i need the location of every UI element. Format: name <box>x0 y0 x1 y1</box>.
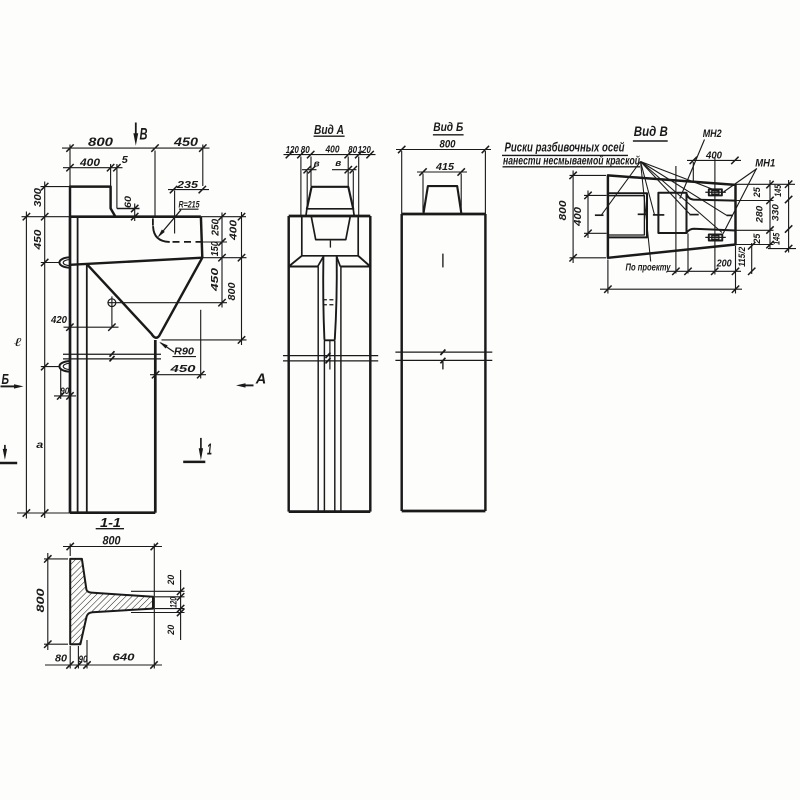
svg-text:145: 145 <box>773 184 784 197</box>
extension line x116.9 <box>116 164 118 209</box>
view B column outline <box>402 213 486 216</box>
column inner edge line 1 <box>77 217 79 513</box>
view A hidden hole dashes <box>323 299 334 301</box>
extension y340 gusset tip <box>162 339 247 341</box>
section web extension lines <box>131 590 185 592</box>
svg-text:800: 800 <box>227 282 238 300</box>
view V dimension 400 top <box>687 159 741 161</box>
view B axis stub <box>442 254 444 268</box>
view A tenon upper trapezoid <box>307 187 353 209</box>
svg-text:300: 300 <box>32 188 44 207</box>
dimension 450 below bracket <box>150 374 206 376</box>
svg-text:ℓ: ℓ <box>14 335 22 349</box>
lifting loop upper <box>59 257 70 267</box>
svg-text:80: 80 <box>348 144 357 156</box>
view V web strip top edge <box>687 194 736 201</box>
view V dimension line po proektu / 200 <box>667 270 741 272</box>
left dimension chain 300/450/a <box>44 182 46 519</box>
lifting loop MH1 bottom (plan) <box>709 234 723 240</box>
view A cap inner verticals <box>301 216 303 256</box>
svg-text:90: 90 <box>60 386 70 397</box>
right dimension chain 400/800 <box>241 212 243 345</box>
dimension 90 at lower loop <box>54 395 76 397</box>
svg-text:450: 450 <box>32 229 44 250</box>
svg-text:По проекту: По проекту <box>626 261 672 273</box>
section right chain 20/120/20 <box>180 570 182 640</box>
svg-text:280: 280 <box>755 205 766 224</box>
svg-text:400: 400 <box>325 143 340 155</box>
view B axis stub below break <box>442 362 444 370</box>
view A cap top edge <box>289 215 371 218</box>
view V right chain 145/330/145 <box>788 180 790 253</box>
column bottom extension left <box>17 512 70 514</box>
svg-text:450: 450 <box>169 363 196 375</box>
lifting loop MH1 top (plan) <box>709 189 722 195</box>
section bottom chain 80/90/640 <box>45 664 162 666</box>
embedded mark circle with crosshair <box>108 299 116 307</box>
svg-text:Вид А: Вид А <box>314 123 344 137</box>
svg-text:В: В <box>140 125 148 144</box>
svg-text:250: 250 <box>210 218 221 236</box>
svg-text:400: 400 <box>572 207 584 227</box>
break marks <box>110 351 115 357</box>
svg-text:R90: R90 <box>174 346 194 358</box>
svg-text:МН2: МН2 <box>703 128 722 140</box>
view V axis risk marks <box>595 214 604 216</box>
svg-text:в: в <box>335 158 341 169</box>
svg-text:а: а <box>36 439 43 451</box>
view A gusset edges <box>323 257 324 340</box>
tenon outline (top spigot) <box>70 187 115 217</box>
break line lower <box>63 358 161 360</box>
view V left dimension 400 <box>587 191 589 239</box>
svg-text:400: 400 <box>705 150 722 162</box>
view V web strip bottom edge <box>687 229 736 233</box>
svg-text:Вид В: Вид В <box>634 124 668 139</box>
extension loop2 center <box>41 366 61 368</box>
dimension 800/450 top <box>62 147 210 149</box>
svg-text:МН1: МН1 <box>755 157 775 169</box>
view B tenon trapezoid <box>423 186 461 214</box>
view A bottom edge <box>289 510 371 513</box>
view B extension lines <box>401 151 403 214</box>
svg-text:в: в <box>314 159 320 170</box>
view A axis line below tip <box>329 340 331 369</box>
svg-text:450: 450 <box>210 267 221 292</box>
svg-text:Риски разбивочных осей: Риски разбивочных осей <box>505 141 625 155</box>
view V tenon socket outer <box>608 193 647 237</box>
extension tenon top left <box>41 186 71 188</box>
section 1-1 hatched T profile <box>70 559 153 644</box>
view A extension lines <box>300 157 302 216</box>
cap bottom edge (sloped) <box>70 258 202 265</box>
cap top edge <box>70 215 201 218</box>
svg-text:400: 400 <box>79 157 101 169</box>
svg-text:640: 640 <box>113 651 135 663</box>
view A socket axis stub <box>329 241 331 248</box>
extension loop1 center <box>41 262 60 264</box>
left overall dimension line (l) <box>25 212 27 519</box>
svg-text:нанести несмываемой краской: нанести несмываемой краской <box>503 156 640 168</box>
view V outline trapezoid <box>608 175 736 257</box>
dimension 60 (vertical) <box>134 204 136 222</box>
section mark 1 right <box>200 438 202 449</box>
bracket gusset outline with R90 tip <box>87 258 202 338</box>
section mark 1 left <box>4 445 6 450</box>
svg-text:А: А <box>255 371 266 388</box>
svg-text:80: 80 <box>55 653 67 664</box>
column bottom edge <box>70 511 155 514</box>
view V tenon socket inner <box>608 196 645 235</box>
extension y257.7 <box>204 257 247 259</box>
view A cap bottom inner line <box>302 255 358 257</box>
svg-text:450: 450 <box>173 137 199 149</box>
svg-text:120: 120 <box>286 144 299 156</box>
svg-text:800: 800 <box>35 587 47 612</box>
svg-text:415: 415 <box>435 161 454 173</box>
view A socket trapezoid <box>311 217 350 239</box>
extension tenon right up <box>110 164 112 187</box>
section arrow B top <box>135 123 137 136</box>
svg-text:150: 150 <box>210 241 221 256</box>
svg-text:200: 200 <box>716 258 732 269</box>
svg-text:235: 235 <box>176 179 198 191</box>
view V right chain 25/280/25 <box>769 180 771 249</box>
dimension 235 <box>168 189 209 191</box>
view A top dimension chain 120/80/400/80/120 <box>284 154 376 156</box>
svg-text:80: 80 <box>301 144 310 156</box>
svg-text:145: 145 <box>772 232 783 245</box>
lifting loop lower <box>59 361 70 372</box>
view A cap bottom chamfers <box>289 256 302 267</box>
svg-text:Вид Б: Вид Б <box>433 120 463 134</box>
svg-text:1-1: 1-1 <box>100 516 121 530</box>
svg-text:25: 25 <box>752 187 763 199</box>
svg-text:800: 800 <box>103 536 122 548</box>
column inner edge line 2 <box>86 265 88 513</box>
leader fan from note to axis marks <box>602 162 641 215</box>
view V left dimension 800 <box>572 171 574 264</box>
break line upper <box>63 353 161 355</box>
svg-text:5: 5 <box>122 155 128 166</box>
view A gusset tip line <box>324 339 335 341</box>
svg-text:800: 800 <box>440 139 457 151</box>
extension to arc center <box>174 191 176 234</box>
column right edge <box>154 340 157 513</box>
view V dimension 115/2 <box>751 243 753 274</box>
svg-text:20: 20 <box>166 574 177 586</box>
extension line tenon left up <box>69 145 71 187</box>
right dimension chain 250/150/450 <box>221 213 223 308</box>
view B dimension 800 <box>396 149 491 151</box>
view B break lines <box>395 351 492 353</box>
dimension 420 <box>64 326 119 328</box>
view B dimension 415 <box>417 171 467 173</box>
svg-text:330: 330 <box>771 203 782 221</box>
view V bottom overall dimension <box>600 288 742 290</box>
view V right extensions <box>736 183 796 185</box>
column left edge <box>69 217 72 513</box>
view A break lines <box>283 355 378 357</box>
view V long extension x715 <box>714 158 716 275</box>
cap right edge <box>201 217 202 258</box>
svg-text:60: 60 <box>123 195 134 208</box>
svg-text:800: 800 <box>557 200 569 220</box>
svg-text:1: 1 <box>207 441 212 458</box>
svg-text:420: 420 <box>50 314 67 326</box>
extension line x202.8 <box>202 145 204 187</box>
extension line x155 <box>154 151 156 217</box>
view V middle recess rectangle <box>658 193 686 233</box>
section left dimension 800 <box>47 553 49 650</box>
svg-text:115/2: 115/2 <box>737 247 747 267</box>
view A gusset top chamfers <box>318 257 324 267</box>
hidden recess edge R215 (dashed) <box>152 218 154 225</box>
section top dimension 800 <box>63 546 162 548</box>
tenon cap plate edge <box>117 208 140 210</box>
view A web face verticals <box>317 267 319 512</box>
svg-text:400: 400 <box>228 219 239 241</box>
extension x200.7 <box>200 310 202 379</box>
svg-text:120: 120 <box>358 144 371 156</box>
view A column outer edges <box>287 216 289 512</box>
view A small dimensions v <box>302 169 317 171</box>
svg-text:20: 20 <box>166 624 177 636</box>
extension of recess line for dims <box>203 241 227 243</box>
svg-text:120: 120 <box>168 596 179 607</box>
cap top extension left <box>22 216 71 218</box>
svg-text:800: 800 <box>88 137 114 149</box>
view A cap bottom edges <box>289 266 318 268</box>
dimension 400/5 <box>63 167 123 169</box>
cap top extension right <box>201 216 246 218</box>
